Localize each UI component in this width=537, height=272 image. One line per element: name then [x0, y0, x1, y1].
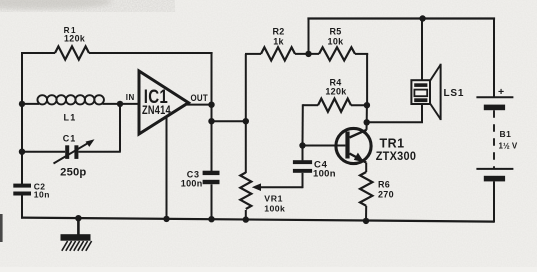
svg-text:10k: 10k: [328, 37, 345, 47]
svg-text:1½ V: 1½ V: [499, 141, 518, 150]
svg-text:R2: R2: [272, 26, 284, 36]
svg-text:250p: 250p: [60, 166, 86, 178]
svg-text:+: +: [498, 86, 504, 98]
svg-text:VR1: VR1: [264, 194, 283, 204]
svg-text:ZN414: ZN414: [142, 103, 171, 117]
svg-text:L1: L1: [64, 113, 77, 123]
svg-text:R6: R6: [378, 179, 390, 189]
svg-text:IN: IN: [126, 93, 135, 102]
svg-text:120k: 120k: [325, 87, 347, 97]
svg-text:C1: C1: [63, 134, 77, 144]
svg-text:R5: R5: [329, 26, 341, 36]
svg-text:OUT: OUT: [191, 93, 209, 103]
svg-text:270: 270: [378, 189, 394, 199]
svg-text:100n: 100n: [313, 168, 336, 179]
svg-text:100n: 100n: [181, 178, 203, 188]
svg-text:1k: 1k: [273, 37, 284, 47]
svg-text:100k: 100k: [264, 203, 285, 213]
svg-text:LS1: LS1: [444, 88, 465, 99]
svg-text:ZTX300: ZTX300: [376, 149, 417, 163]
svg-text:B1: B1: [500, 129, 512, 139]
svg-text:120k: 120k: [64, 34, 85, 44]
svg-text:10n: 10n: [34, 190, 50, 200]
